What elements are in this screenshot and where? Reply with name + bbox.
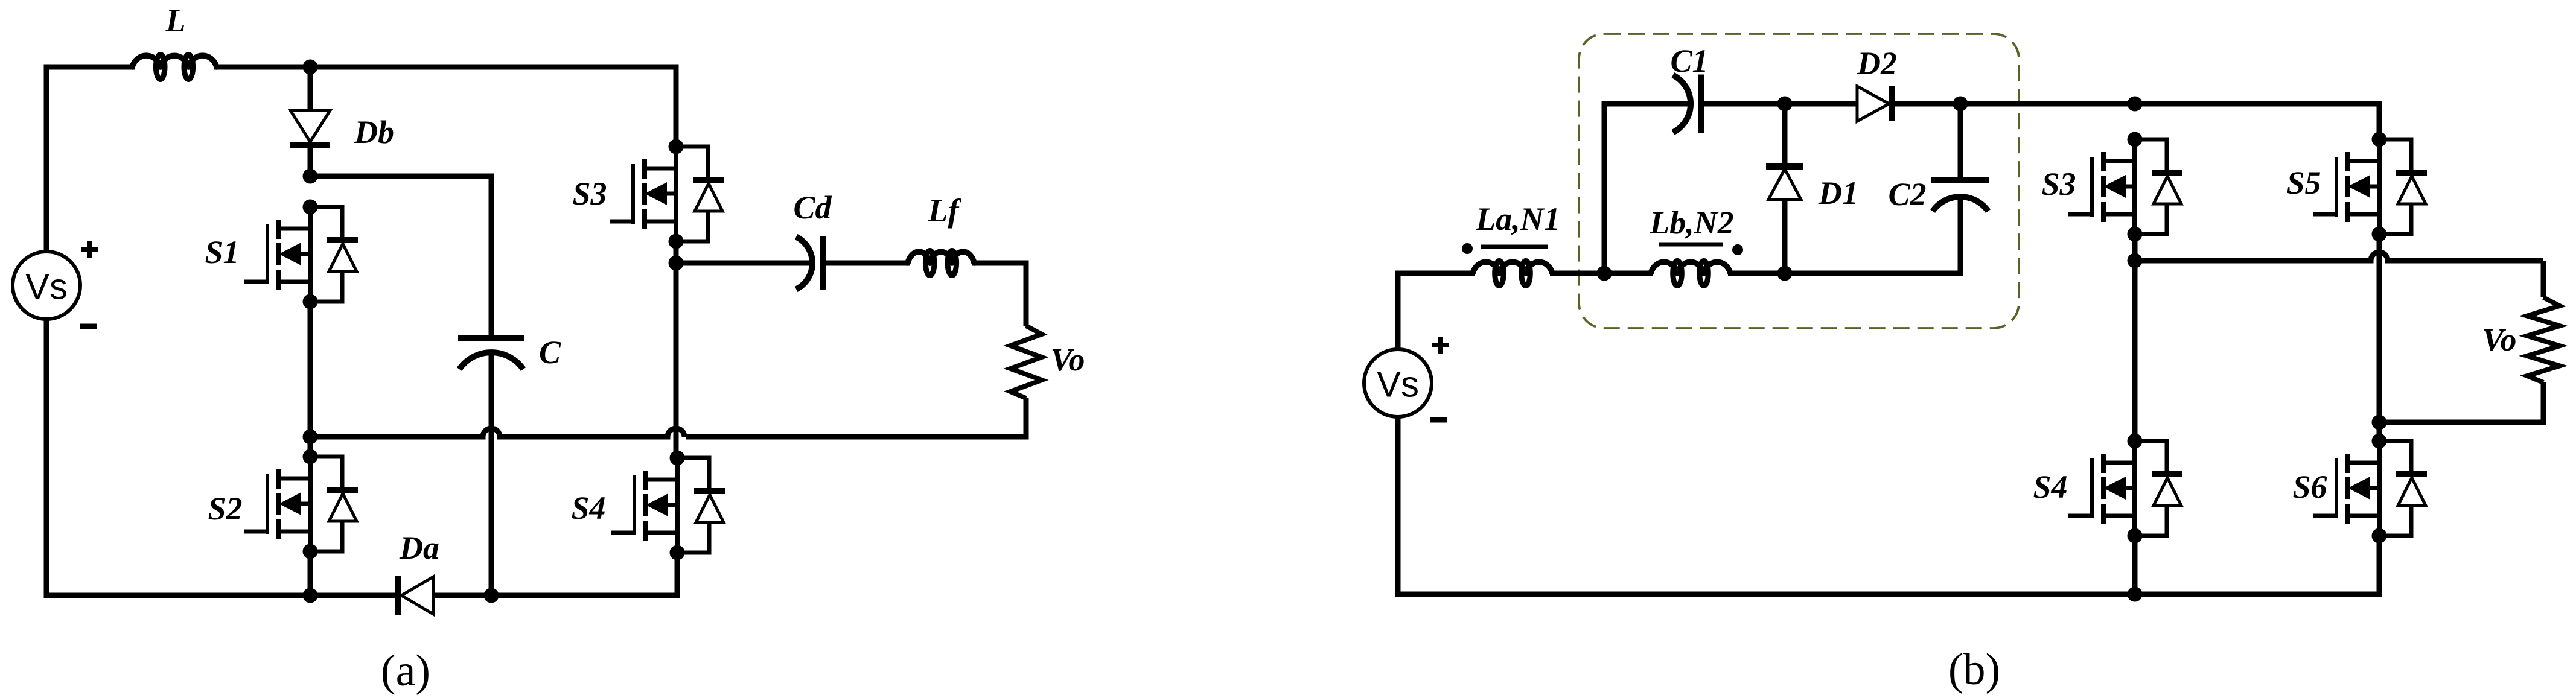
label D1	[1818, 175, 1858, 211]
label Cd	[793, 189, 832, 226]
label S3	[572, 176, 607, 212]
label S4 b	[2033, 469, 2067, 505]
polarity dot La	[1462, 243, 1473, 254]
label Db	[354, 114, 394, 150]
svg-text:Da: Da	[399, 530, 439, 566]
svg-text:S2: S2	[208, 490, 242, 527]
inductor Lf	[908, 251, 974, 276]
wire C1 to D2 node	[1704, 101, 1785, 107]
label Lf	[928, 192, 962, 229]
svg-text:D1: D1	[1818, 175, 1858, 211]
label Vo load a	[1050, 341, 1085, 378]
svg-text:Vs: Vs	[25, 267, 68, 307]
wire midpoint to S4 b	[2132, 261, 2138, 441]
diode D1	[1766, 167, 1803, 200]
svg-text:S4: S4	[2033, 469, 2067, 505]
capacitor Cd	[796, 236, 823, 290]
voltage source Vs	[13, 241, 98, 326]
transistor S1	[244, 200, 358, 309]
label S6	[2292, 469, 2327, 505]
wire D1 node to C2 leg	[1785, 195, 1960, 273]
wire S3 drain from top rail	[674, 67, 679, 147]
wire Lb to D1 node	[1728, 271, 1785, 276]
label La,N1	[1475, 201, 1560, 237]
inductor La	[1473, 261, 1552, 286]
label Da	[399, 530, 439, 566]
wire C2 top lead	[1958, 104, 1963, 180]
transistor S3	[610, 139, 724, 249]
wire Db drain stub	[308, 67, 313, 111]
diode D1 top lead	[1782, 104, 1788, 167]
junction dot Vo return	[2372, 415, 2387, 430]
node B	[303, 169, 318, 184]
svg-text:C: C	[539, 334, 561, 370]
wire S5 source down	[2377, 234, 2382, 441]
junction dot return node	[303, 430, 318, 445]
wire D2 to C2 node	[1892, 101, 1960, 107]
label S2	[208, 490, 242, 527]
resistor Vo	[1010, 326, 1042, 398]
wire Vs to rail b	[1395, 271, 1401, 351]
capacitor C2	[1931, 180, 1989, 211]
wire Lf to Vo	[972, 263, 1026, 326]
svg-text:Cd: Cd	[793, 189, 832, 226]
wire top rail	[214, 65, 679, 70]
svg-text:D2: D2	[1857, 45, 1897, 81]
label (a)	[381, 646, 430, 696]
label S3 b	[2041, 166, 2076, 202]
label (b)	[1948, 645, 2000, 694]
svg-text:S6: S6	[2292, 469, 2327, 505]
transistor S4 b	[2068, 434, 2182, 544]
node A	[303, 60, 318, 75]
label C1	[1670, 43, 1708, 79]
label S1	[205, 234, 239, 270]
node S3-S4 midpoint b	[2128, 253, 2143, 268]
wire left rail upper	[44, 65, 49, 253]
wire Cd to Lf	[826, 261, 910, 266]
wire node to D2	[1785, 101, 1857, 107]
svg-text:S5: S5	[2286, 165, 2321, 201]
junction dot S2 bottom	[303, 588, 318, 603]
underline Lb	[1659, 243, 1723, 247]
svg-text:Lf: Lf	[928, 192, 962, 229]
capacitor C	[458, 338, 524, 369]
svg-text:S3: S3	[572, 176, 607, 212]
wire S3b source to midpoint	[2132, 234, 2138, 261]
svg-text:S4: S4	[571, 490, 605, 526]
svg-text:C2: C2	[1888, 176, 1926, 212]
svg-text:S1: S1	[205, 234, 239, 270]
label C	[539, 334, 561, 370]
junction dot La-Lb	[1597, 266, 1612, 281]
label C2	[1888, 176, 1926, 212]
wire top rail b to S5	[2135, 104, 2379, 139]
node S3-S4 midpoint	[669, 256, 684, 271]
label D2	[1857, 45, 1897, 81]
wire Vo bottom	[686, 398, 1026, 437]
dashed boundary box	[1579, 34, 2019, 328]
label S4	[571, 490, 605, 526]
wire S4 source to rail	[675, 553, 680, 598]
underline La	[1481, 245, 1548, 249]
voltage source Vs b	[1364, 337, 1449, 420]
wire S1 to S2	[308, 302, 313, 457]
wire rail b corner	[1398, 271, 1475, 276]
resistor Vo b	[2527, 297, 2560, 382]
transistor S3 b	[2068, 132, 2182, 242]
wire bottom rail right	[433, 593, 677, 598]
svg-text:(a): (a)	[381, 646, 430, 696]
polarity dot Lb	[1732, 244, 1743, 255]
transistor S5	[2313, 132, 2427, 242]
svg-text:C1: C1	[1670, 43, 1708, 79]
wire midpoint to S4	[674, 263, 679, 458]
junction dot C bottom	[484, 588, 499, 603]
diode Db	[290, 110, 330, 145]
inductor L	[132, 55, 217, 80]
wire C bottom lead	[489, 351, 494, 595]
svg-text:L: L	[165, 2, 186, 39]
transistor S6	[2313, 434, 2427, 544]
svg-text:Vs: Vs	[1377, 364, 1419, 405]
wire return with hops	[310, 428, 684, 437]
wire S2 source to rail	[308, 551, 313, 595]
wire bottom rail left	[46, 593, 395, 598]
wire Vo top lead b	[2541, 261, 2546, 297]
label Vo load b	[2482, 322, 2516, 358]
transistor S4	[611, 451, 725, 560]
inductor Lb	[1651, 261, 1730, 286]
node D2 anode	[1777, 97, 1793, 112]
wire Db to node	[308, 148, 313, 176]
diode D2	[1857, 86, 1892, 121]
svg-text:La,N1: La,N1	[1475, 201, 1560, 237]
wire S3 source to midpoint	[674, 241, 679, 263]
wire Vo bottom lead b	[2379, 382, 2543, 422]
svg-text:S3: S3	[2041, 166, 2076, 202]
label Lb,N2	[1649, 205, 1733, 241]
svg-text:Vo: Vo	[1050, 341, 1085, 378]
svg-text:Vo: Vo	[2482, 322, 2516, 358]
wire Vs left rail b	[1395, 416, 1401, 597]
junction dot D1 bottom	[1777, 266, 1793, 281]
wire top rail b to S3	[1960, 101, 2135, 107]
wire left rail lower	[44, 319, 49, 598]
wire S4b source to rail	[2132, 536, 2138, 594]
wire node B to C top	[310, 176, 491, 337]
transistor S2	[244, 449, 358, 559]
node C2 top	[1953, 97, 1968, 112]
label S5	[2286, 165, 2321, 201]
diode D1 bottom lead	[1782, 200, 1788, 273]
wire top rail left	[46, 65, 135, 70]
diode Da	[398, 576, 433, 615]
svg-text:Db: Db	[354, 114, 394, 150]
wire Lb junction stub	[1604, 271, 1653, 276]
junction dot S4 bottom	[2128, 587, 2143, 602]
wire La to junction	[1550, 271, 1604, 276]
wire midpoint to Cd	[676, 261, 812, 266]
node S3 top	[2128, 97, 2143, 112]
wire junction up to top row	[1604, 104, 1690, 273]
wire midpoint to Vo with hop	[2135, 252, 2543, 261]
svg-text:(b): (b)	[1948, 645, 2000, 694]
capacitor C1	[1673, 75, 1701, 133]
svg-text:Lb,N2: Lb,N2	[1649, 205, 1733, 241]
wire S6 source to rail	[1398, 536, 2379, 594]
label L	[165, 2, 186, 39]
